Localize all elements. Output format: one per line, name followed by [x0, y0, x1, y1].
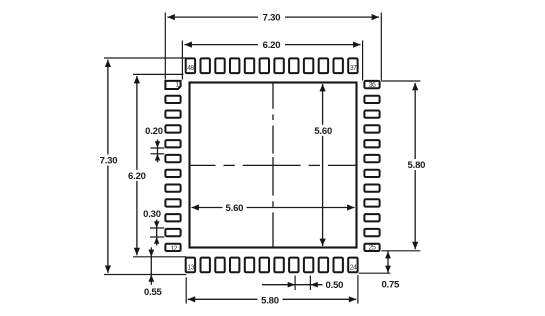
- dim text 7.30 top: [258, 12, 285, 23]
- svg-text:24: 24: [350, 265, 357, 272]
- svg-text:5.80: 5.80: [408, 160, 426, 171]
- svg-text:12: 12: [170, 245, 177, 252]
- ext vertical for top 7.30 left: [164, 13, 166, 80]
- svg-text:36: 36: [369, 82, 376, 89]
- 0.55 arrows: [148, 250, 154, 257]
- svg-text:37: 37: [350, 65, 357, 72]
- dim text 5.60 horizontal: [223, 202, 247, 213]
- vertical centerline: [272, 83, 274, 248]
- svg-text:5.80: 5.80: [261, 296, 279, 307]
- svg-text:13: 13: [187, 265, 194, 272]
- arrowheads: [105, 14, 419, 302]
- 6.20 left arrows: [134, 76, 140, 83]
- 0.75 arrows: [385, 251, 391, 258]
- top pad row pads 48..37: [186, 58, 358, 73]
- 0.20 arrows: [155, 141, 160, 148]
- 5.80 right arrows: [412, 83, 418, 90]
- dim 5.80 bottom: [188, 298, 356, 300]
- dim 5.60 vertical: [322, 84, 324, 246]
- svg-text:48: 48: [187, 65, 194, 72]
- ext right 5.80 top: [381, 80, 420, 82]
- svg-text:7.30: 7.30: [263, 13, 281, 24]
- dim text 6.20 left: [125, 170, 150, 181]
- 5.80 bottom arrows: [188, 296, 195, 302]
- tick 0.50 left: [294, 276, 296, 291]
- ext vertical for top 7.30 right: [380, 13, 382, 81]
- extension lines: [104, 13, 420, 304]
- svg-text:5.60: 5.60: [314, 126, 332, 137]
- dim text 7.30 left: [96, 155, 121, 166]
- 0.50 arrows: [288, 282, 295, 288]
- dim 6.20 left: [136, 76, 138, 255]
- ext bottom 5.80 right: [357, 275, 359, 304]
- exposed pad square: [190, 83, 357, 248]
- ext vertical for top 6.20 right: [362, 41, 364, 81]
- svg-text:0.50: 0.50: [326, 280, 344, 291]
- dim text 5.80 right: [404, 159, 429, 170]
- svg-text:25: 25: [369, 245, 376, 252]
- dim 6.20 top: [185, 44, 361, 46]
- svg-text:6.20: 6.20: [263, 40, 281, 51]
- dim 0.30 line: [156, 220, 158, 246]
- 7.30 top arrows: [167, 14, 174, 20]
- horizontal centerline: [190, 164, 357, 166]
- svg-text:0.20: 0.20: [145, 126, 163, 137]
- ext vertical for top 6.20 left: [181, 41, 183, 80]
- ext bottom-left for 7.30 bottom / 0.55 bottom: [104, 274, 186, 276]
- svg-text:0.75: 0.75: [381, 279, 400, 290]
- dim text 6.20 top: [258, 39, 285, 50]
- ticks 0.20: [151, 147, 165, 149]
- ticks 0.30: [150, 227, 164, 229]
- tick 0.50 right: [309, 276, 311, 291]
- right pad column pads 36(top)..25(bottom): [364, 81, 379, 251]
- svg-text:0.55: 0.55: [144, 287, 163, 298]
- dim 0.55 line: [150, 247, 152, 284]
- dim text 5.60 vertical: [311, 125, 335, 136]
- dim 7.30 top: [167, 16, 379, 18]
- 7.30 left arrows: [105, 60, 111, 67]
- svg-text:0.30: 0.30: [143, 209, 161, 220]
- left pad column pads 1..12: [165, 81, 180, 251]
- ext bottom-right for 0.75 bottom: [359, 272, 391, 274]
- svg-text:6.20: 6.20: [128, 171, 146, 182]
- dimension lines: [108, 17, 415, 299]
- dim 7.30 left: [107, 60, 109, 273]
- pin 1 pad with chamfer: [165, 81, 180, 89]
- dim text 5.80 bottom: [258, 295, 283, 306]
- 5.60 vertical arrows: [320, 84, 326, 91]
- svg-text:7.30: 7.30: [100, 156, 118, 167]
- dim 5.80 right: [414, 83, 416, 249]
- ext bottom-left for 6.20 bottom / 0.55 top: [133, 256, 186, 258]
- bottom pad row pads 13..24: [186, 258, 358, 273]
- dim 0.20 line: [157, 140, 159, 163]
- 0.30 arrows: [154, 221, 159, 228]
- dim 5.60 horizontal: [192, 207, 355, 209]
- ext top-left horizontal for left 7.30: [104, 57, 186, 59]
- dim 0.75 line: [387, 251, 389, 273]
- svg-text:5.60: 5.60: [226, 203, 244, 214]
- 6.20 top arrows: [185, 42, 192, 48]
- ext right 5.80 bottom: [381, 250, 420, 252]
- 5.60 horizontal arrows: [192, 204, 199, 210]
- ext for left 6.20 top: [133, 73, 184, 75]
- ext bottom 5.80 left: [185, 277, 187, 303]
- dim 0.50 line: [262, 284, 323, 286]
